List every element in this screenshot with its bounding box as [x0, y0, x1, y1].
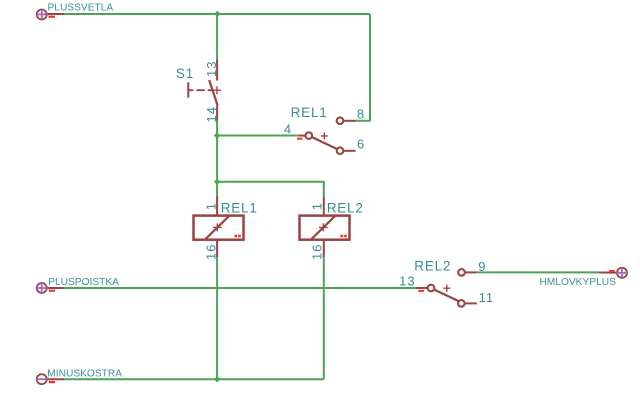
pin 9 contact circle — [458, 269, 465, 276]
coil diagonal — [312, 216, 335, 239]
port HMLOVKYPLUS — [539, 268, 627, 288]
svg-text:MINUSKOSTRA: MINUSKOSTRA — [47, 369, 122, 380]
relay coil REL1 (pins 1,16) — [194, 196, 244, 257]
contact blade — [435, 290, 460, 302]
pin 13 line — [416, 287, 427, 289]
pin 14 line — [216, 106, 218, 121]
coil diagonal — [206, 216, 229, 239]
svg-text:16: 16 — [309, 244, 324, 260]
contact blade — [312, 137, 337, 149]
port circle — [37, 283, 47, 293]
switch S1 — [188, 60, 221, 121]
junction at top of S1 branch — [214, 11, 220, 17]
plus mark — [37, 283, 47, 293]
port pin line — [48, 378, 65, 380]
pin 13 line — [216, 60, 218, 81]
svg-text:14: 14 — [204, 106, 219, 122]
pin 4 contact circle — [306, 132, 313, 139]
svg-text:REL1: REL1 — [221, 201, 258, 216]
junction A — [214, 132, 220, 138]
wire junction A to REL1 contact pin 4 — [217, 135, 299, 137]
actuator dashed link — [189, 89, 212, 91]
plus mark — [37, 10, 47, 20]
plus polarity mark — [213, 223, 222, 231]
port PLUSPOISTKA — [37, 277, 119, 293]
junction B — [214, 179, 220, 185]
pin 11 contact circle — [458, 300, 465, 307]
actuator bar — [187, 82, 189, 97]
wire S1 branch from top junction down — [216, 14, 218, 60]
svg-text:HMLOVKYPLUS: HMLOVKYPLUS — [539, 277, 616, 288]
port pin line — [599, 272, 616, 274]
svg-text:11: 11 — [479, 290, 495, 305]
pin 1 line — [323, 196, 325, 215]
wire from S1 pin 14 down past junction A to REL1 coil — [216, 121, 218, 197]
wire REL2 contact pin 9 to HMLOVKYPLUS — [476, 271, 599, 273]
svg-text:REL1: REL1 — [291, 105, 328, 120]
svg-text:PLUSPOISTKA: PLUSPOISTKA — [48, 277, 119, 288]
pin 11 line — [465, 302, 477, 304]
port pin line — [48, 13, 65, 15]
wire net PLUSPOISTKA to REL2 contact pin 13 — [64, 287, 415, 289]
tiny net label mark — [418, 290, 424, 292]
tiny net label mark — [297, 138, 303, 140]
coil body box — [194, 216, 244, 240]
tiny net label mark — [49, 381, 55, 383]
plus mark — [617, 268, 627, 278]
wire net PLUSSVETLA top horizontal — [64, 13, 370, 15]
tiny value text mark — [235, 235, 238, 238]
port pin line — [48, 287, 65, 289]
port circle — [37, 10, 47, 20]
junction bottom — [214, 376, 220, 382]
svg-text:8: 8 — [357, 107, 365, 122]
svg-text:4: 4 — [284, 121, 292, 136]
tiny net label mark — [49, 290, 55, 292]
svg-text:S1: S1 — [176, 66, 194, 81]
port circle — [617, 268, 627, 278]
pin 16 line — [216, 240, 218, 258]
plus polarity mark — [319, 223, 328, 231]
tiny net label mark — [609, 270, 615, 272]
relay coil REL2 (pins 1,16) — [300, 196, 350, 257]
svg-text:13: 13 — [204, 61, 219, 77]
plus polarity mark — [213, 86, 221, 94]
wire junction B to REL2 coil branch — [217, 182, 324, 196]
port circle — [37, 374, 47, 384]
pin 8 line — [344, 120, 356, 122]
wire REL2 coil pin 16 down to MINUSKOSTRA corner — [323, 257, 325, 379]
wire net MINUSKOSTRA bottom horizontal — [64, 378, 323, 380]
relay contact REL2 (pins 13,9,11) — [416, 269, 477, 307]
pin 1 line — [216, 196, 218, 215]
svg-text:REL2: REL2 — [414, 258, 451, 273]
svg-text:1: 1 — [309, 202, 324, 210]
svg-text:REL2: REL2 — [327, 201, 364, 216]
svg-text:6: 6 — [357, 137, 365, 152]
pin 9 line — [465, 271, 476, 273]
plus polarity mark — [321, 132, 328, 139]
pin 16 line — [323, 240, 325, 258]
tiny net label mark — [49, 16, 56, 18]
port MINUSKOSTRA — [37, 369, 123, 385]
relay contact REL1 (pins 4,8,6) — [297, 117, 356, 154]
minus mark — [37, 378, 47, 380]
svg-text:PLUSSVETLA: PLUSSVETLA — [48, 3, 114, 14]
coil body box — [300, 216, 350, 240]
pin 13 contact circle — [428, 285, 435, 292]
svg-text:1: 1 — [203, 202, 218, 210]
plus polarity mark — [443, 285, 450, 292]
svg-text:13: 13 — [399, 273, 415, 288]
tiny value text mark — [341, 235, 344, 238]
wire REL1 coil pin 16 down to bottom junction — [216, 257, 218, 379]
switch blade — [209, 80, 217, 106]
pin 6 line — [344, 150, 356, 152]
pin 6 contact circle — [337, 147, 344, 154]
wire right vertical down to REL1 pin 8 — [356, 14, 371, 121]
pin 8 contact circle — [337, 117, 344, 124]
pin 4 line — [299, 135, 305, 137]
port PLUSSVETLA — [37, 3, 114, 20]
